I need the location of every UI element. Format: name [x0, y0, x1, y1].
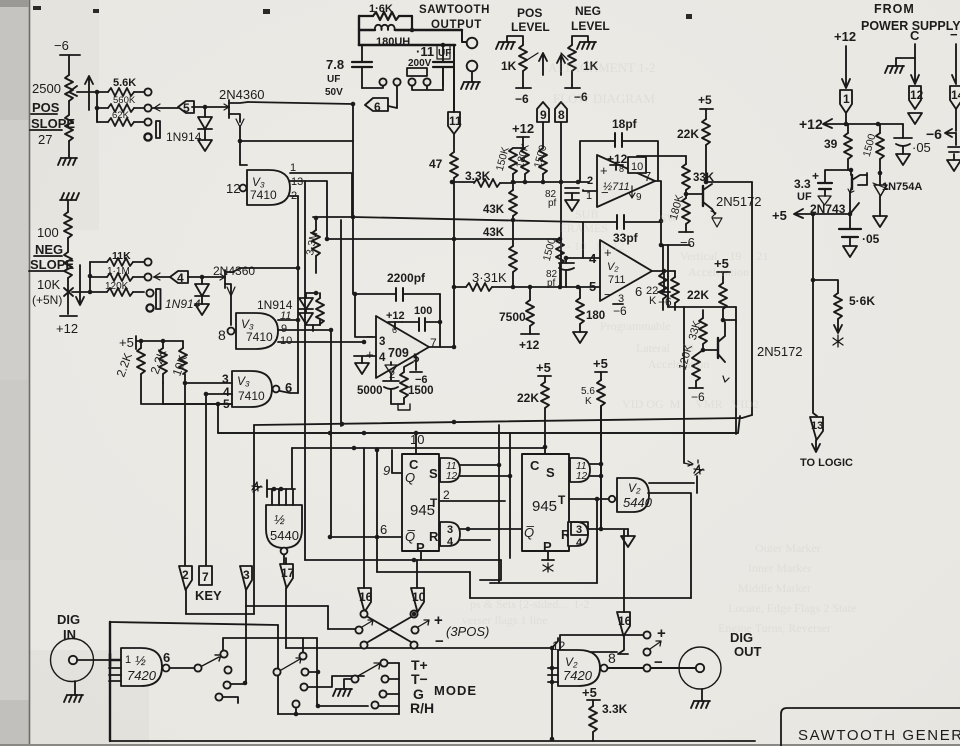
wire minus input: [355, 294, 376, 337]
ground arrow (right edge): [947, 160, 960, 171]
junction: [844, 122, 849, 127]
svg-text:+: +: [657, 625, 666, 642]
svg-text:2N5172: 2N5172: [716, 194, 762, 209]
wire box right edge: [751, 182, 753, 415]
terminal circle (5.6K): [144, 88, 151, 95]
wire contact1 riser: [223, 638, 317, 650]
svg-text:3: 3: [379, 336, 385, 348]
svg-text:Outer Marker: Outer Marker: [755, 541, 821, 555]
pin 4 wire: [566, 257, 600, 259]
label SLOPE: [29, 257, 74, 272]
arrow up (wiper sense): [85, 76, 93, 110]
7420#1 input stubs: [109, 668, 121, 681]
wire H1 corner down: [327, 606, 329, 629]
wire P1 down: [420, 551, 422, 560]
wire pin1 cap 82pf to ground: [545, 188, 597, 211]
junction: [811, 212, 816, 217]
capacitor .05 (rail): [894, 124, 931, 155]
junction: [329, 328, 334, 333]
wire output: [429, 322, 454, 347]
junction pin3: [183, 381, 188, 386]
pin 3: [185, 372, 232, 386]
wire + contact staircase: [560, 635, 643, 652]
wire long vertical from tag6 node: [352, 104, 354, 294]
label +12 (rail top): [512, 121, 534, 148]
svg-text:3: 3: [447, 524, 453, 536]
junction: [279, 487, 284, 492]
svg-text:39: 39: [824, 137, 838, 151]
wire output-chain lower vertical: [683, 307, 685, 463]
svg-text:(+5N): (+5N): [32, 293, 62, 307]
ground (POS pot): [496, 36, 523, 49]
svg-text:Lateral 38: Lateral 38: [636, 341, 694, 355]
resistor 3.3K: [589, 702, 628, 741]
wire Q1 out to 9: [383, 450, 402, 478]
svg-text:+: +: [366, 347, 374, 362]
wire +5 node down: [812, 214, 814, 280]
MODE contact T-: [381, 675, 399, 682]
X middle circles: [355, 626, 362, 633]
svg-text:−: −: [950, 27, 958, 42]
wire y560 bus: [305, 559, 501, 561]
svg-text:FRAMES: FRAMES: [560, 221, 608, 235]
pin 1: [290, 162, 352, 217]
svg-text:FROM: FROM: [874, 2, 915, 16]
svg-text:NEG: NEG: [35, 242, 63, 257]
svg-text:+: +: [434, 612, 443, 629]
edge specks: [0, 0, 692, 19]
svg-text:12: 12: [910, 88, 924, 102]
svg-text:T−: T−: [411, 671, 428, 687]
pin 12 bubble: [226, 181, 246, 196]
junction: [576, 285, 581, 290]
junction: [550, 737, 555, 742]
capacitor 7.8UF 50V: [325, 45, 372, 98]
junction pin4 cap: [564, 256, 569, 261]
svg-text:UF: UF: [797, 191, 812, 203]
label SLOPE: [30, 116, 75, 131]
diode 1N914 shaper: [299, 293, 313, 324]
pin 9 arrow inside: [629, 186, 642, 203]
svg-text:Engine Turns, Reverser: Engine Turns, Reverser: [718, 621, 831, 635]
wire U3 output up: [280, 391, 298, 393]
junction 1500 top: [558, 237, 563, 242]
resistor (output chain): [659, 245, 667, 310]
junction: [811, 278, 816, 283]
wire x377 drop: [376, 448, 378, 572]
+5 / 22K (middle right): [714, 256, 730, 283]
svg-text:MODE: MODE: [434, 683, 477, 698]
ground arrow (NEG clamp): [195, 304, 209, 315]
junction: [95, 106, 100, 111]
star terminal (5440#1): [252, 482, 262, 492]
gate U1 V3 7410: [247, 170, 290, 205]
svg-text:DIG: DIG: [57, 612, 80, 627]
wire S1 input a: [460, 464, 499, 466]
wire y598 bus: [470, 597, 691, 599]
tag 11: [448, 45, 462, 134]
wire line B: [218, 432, 738, 434]
junction: [314, 291, 319, 296]
ground arrow (.05): [896, 154, 910, 165]
svg-text:2: 2: [443, 488, 450, 502]
resistor 5.6K: [97, 77, 144, 96]
junction lineB x415: [414, 431, 419, 436]
svg-text:560K: 560K: [113, 95, 136, 106]
resistor 33K (lower): [687, 310, 707, 350]
svg-text:5440: 5440: [270, 528, 299, 543]
wire output2 drop: [690, 493, 692, 598]
transistor Q1 2N4360 JFET: [205, 100, 248, 127]
wire to output jack: [462, 30, 467, 42]
junction: [139, 339, 144, 344]
junction: [595, 497, 600, 502]
svg-text:1: 1: [125, 654, 131, 666]
svg-text:10: 10: [280, 335, 292, 347]
wire y560 right corner: [480, 560, 501, 580]
resistors +5 pullup cluster: [119, 335, 183, 350]
title box: [781, 708, 960, 746]
svg-text:T: T: [430, 496, 438, 510]
wire y572 corner down: [469, 572, 471, 598]
pin 11: [278, 310, 298, 322]
terminal circles (trim pads): [379, 78, 386, 85]
switch contact circles: [220, 650, 227, 657]
output bubble 5440#1: [281, 548, 288, 555]
junction: [599, 474, 604, 479]
svg-text:−: −: [604, 287, 612, 302]
flip-flop U7 945: [402, 454, 439, 555]
svg-text:945: 945: [532, 498, 557, 515]
ground (NEG pot top): [60, 193, 79, 212]
contact circles (mid switch): [301, 668, 308, 675]
wire S2 inputs: [590, 464, 601, 476]
wire x499 drop: [498, 425, 500, 583]
MODE contacts T+: [380, 659, 399, 666]
junction lineB x364: [362, 431, 367, 436]
capacitor 5000: [357, 374, 403, 404]
junction: [599, 527, 604, 532]
+12 supply (U4 pin 8): [607, 152, 628, 174]
tag 16a: [358, 448, 373, 612]
svg-text:−6: −6: [515, 92, 529, 106]
svg-text:47: 47: [429, 157, 443, 171]
junction: [511, 285, 516, 290]
svg-text:5.6K: 5.6K: [113, 77, 136, 89]
wire JFET2 source to gate pin 8: [230, 295, 232, 325]
svg-text:C: C: [530, 458, 540, 473]
+5 22K column (top right): [698, 93, 713, 119]
wire -6 to pot: [68, 55, 70, 75]
op-amp U4 1/2 711 (upper comparator): [597, 155, 655, 207]
MODE bus: [398, 663, 400, 714]
svg-text:5·6K: 5·6K: [849, 294, 875, 308]
wire loop right vertical: [411, 16, 413, 30]
wire y572 bus: [377, 571, 470, 573]
junction zener top: [878, 171, 883, 176]
svg-text:NEG: NEG: [575, 4, 601, 18]
svg-text:·11: ·11: [416, 44, 434, 59]
tag 7 KEY: [195, 566, 222, 603]
junction: [88, 274, 93, 279]
wire pad bus right: [412, 67, 443, 90]
wire +12 rail: [846, 123, 903, 125]
junction: [161, 339, 166, 344]
svg-text:½: ½: [135, 653, 146, 668]
junction: [375, 535, 380, 540]
enclosure right vertical: [735, 307, 737, 322]
wire to switch: [170, 667, 194, 669]
svg-text:7410: 7410: [250, 188, 277, 202]
svg-text:−6: −6: [54, 38, 69, 53]
junction: [238, 139, 243, 144]
wire R1 input b: [460, 539, 490, 541]
junction: [294, 712, 299, 717]
svg-text:2: 2: [389, 369, 395, 381]
node B junction: [200, 275, 205, 280]
svg-text:2N5172: 2N5172: [757, 344, 803, 359]
transistor Q3 2N5172: [686, 184, 762, 217]
junction 3.3K right: [450, 180, 455, 185]
arrow into star terminal: [684, 461, 693, 466]
label POS: [31, 100, 60, 115]
junction: [441, 43, 446, 48]
gate U3 V3 7410: [232, 371, 272, 407]
pin 13: [290, 176, 327, 239]
svg-text:·05: ·05: [912, 140, 931, 155]
resistor 10K: [170, 341, 190, 383]
junction collector node: [704, 180, 709, 185]
capacitor 3.3UF: [794, 169, 851, 205]
connector DIG OUT (BNC): [679, 647, 721, 689]
svg-text:12: 12: [446, 471, 458, 482]
input bubble 5440#2: [609, 496, 615, 502]
wire stub: [309, 671, 318, 673]
svg-text:14: 14: [951, 88, 960, 102]
MODE switch common: [351, 663, 380, 683]
wire tag17 row: [286, 647, 552, 649]
junction: [316, 670, 321, 675]
gate S2 (and): [570, 458, 590, 482]
diode 1N914 (slug NEG): [156, 289, 161, 309]
potentiometer 2500 POS SLOPE: [65, 75, 77, 157]
label 22K (stacked): [646, 285, 658, 307]
wire loop left vertical: [358, 16, 360, 45]
wire pad bus left: [362, 86, 383, 88]
tag 1: [840, 90, 852, 124]
wire y583 loop: [490, 582, 597, 584]
junction: [325, 237, 330, 242]
wire source node to long vertical: [240, 140, 353, 142]
junction: [452, 285, 457, 290]
svg-text:7.8: 7.8: [326, 57, 344, 72]
svg-text:7500: 7500: [499, 310, 526, 324]
junction: [550, 680, 555, 685]
junction: [412, 558, 417, 563]
svg-text:VID OG M VMR VID2: VID OG M VMR VID2: [622, 397, 759, 411]
big box left edge: [109, 622, 111, 741]
X bottom circles: [360, 641, 367, 648]
svg-text:SLOPE: SLOPE: [31, 116, 75, 131]
X cross wires: [368, 617, 411, 642]
capacitor .11UF 200V: [407, 44, 453, 90]
label POS LEVEL: [511, 6, 550, 34]
7420#2 input stubs: [548, 668, 558, 682]
connector DIG IN (BNC): [51, 639, 94, 682]
wire line A left drop: [253, 425, 255, 614]
wire 5440#2 outputs: [648, 483, 694, 493]
svg-text:5000: 5000: [357, 385, 383, 397]
svg-text:S: S: [546, 465, 555, 480]
big box top edge: [110, 622, 278, 625]
wire C-input branch 945#1: [410, 432, 424, 454]
capacitor 82pf (pin4): [546, 258, 574, 289]
resistor 120K (lower chain): [677, 343, 705, 404]
resistor 33K upper: [637, 156, 690, 194]
svg-text:LEVEL: LEVEL: [511, 20, 550, 34]
label DIG OUT: [730, 630, 762, 659]
terminal circle (62K): [144, 118, 151, 125]
svg-text:+5: +5: [593, 356, 608, 371]
tag 14 (right edge): [950, 86, 960, 131]
node C in: [910, 28, 920, 84]
gate U11 1/2 7420: [121, 648, 162, 686]
svg-text:½: ½: [274, 512, 285, 527]
svg-text:ps & Sets [2-sided... 1-2: ps & Sets [2-sided... 1-2: [470, 597, 589, 611]
gate U8 1/2 5440: [266, 505, 302, 548]
+12 arrow left: [799, 116, 846, 132]
X mid arrow right: [418, 620, 429, 627]
ground arrow (zener): [873, 216, 887, 227]
junction: [316, 704, 321, 709]
capacitor 33pf: [583, 215, 661, 258]
svg-text:8: 8: [619, 164, 624, 174]
svg-text:100: 100: [414, 305, 432, 317]
svg-text:2500: 2500: [32, 81, 61, 96]
node A junction: [203, 105, 208, 110]
svg-text:SW: SW: [660, 211, 679, 225]
svg-text:R: R: [429, 529, 439, 544]
svg-text:7410: 7410: [238, 389, 265, 403]
terminal pad 2: [393, 78, 400, 85]
junction tag6: [351, 102, 356, 107]
svg-text:16: 16: [618, 614, 632, 628]
wire R2 input to ground: [588, 529, 628, 536]
pin 2: [290, 190, 298, 202]
potentiometer 1K NEG: [561, 45, 580, 88]
label DIG IN: [57, 612, 80, 642]
wire tag9 down: [542, 122, 544, 148]
wire stub down: [295, 708, 297, 714]
tag 4: [154, 271, 202, 285]
contact low: [292, 700, 299, 707]
ground arrow (709 +): [355, 363, 369, 374]
wire pin2 vertical: [297, 196, 299, 393]
junction pin11: [296, 318, 301, 323]
DIG OUT switch + contact: [643, 625, 666, 642]
svg-text:POS: POS: [32, 100, 60, 115]
svg-text:verser flags 1 line: verser flags 1 line: [462, 613, 548, 627]
wire tag3 down: [245, 590, 247, 606]
-6 stub below output: [658, 271, 672, 309]
svg-text:4: 4: [447, 536, 454, 548]
svg-text:4: 4: [379, 352, 386, 364]
svg-text:V₂: V₂: [628, 481, 641, 495]
ground arrow (R2): [621, 536, 635, 547]
junction pin5: [216, 402, 221, 407]
junction pin4: [204, 392, 209, 397]
svg-text:V₂: V₂: [565, 655, 578, 669]
wire contact4 stub: [223, 697, 238, 703]
gate R2 (and): [568, 522, 588, 549]
svg-text:+5: +5: [582, 685, 597, 700]
diode 1N754A zener: [873, 173, 922, 216]
wire comparator feedback chain x663: [661, 244, 690, 246]
wire tag16b to switch: [618, 636, 628, 654]
wire y217 long: [313, 217, 583, 222]
junction: [95, 90, 100, 95]
svg-text:9: 9: [383, 463, 390, 478]
svg-text:8: 8: [558, 108, 565, 122]
junction base node: [684, 192, 689, 197]
wire collector2 riser: [723, 319, 736, 321]
wire collector to box edge: [706, 181, 752, 183]
diode to ground (POS input clamp): [198, 107, 212, 140]
svg-text:TO LOGIC: TO LOGIC: [800, 457, 853, 469]
junction: [599, 462, 604, 467]
wire mid vertical: [340, 220, 342, 426]
X mid arrow left: [362, 620, 373, 627]
5440#1 input stubs: [272, 489, 293, 505]
svg-text:2: 2: [182, 568, 189, 582]
junction: [528, 285, 533, 290]
terminal pad 4: [423, 78, 430, 85]
svg-text:10: 10: [631, 161, 643, 173]
wire 2.2Kb to pin5: [162, 383, 164, 404]
resistor 1M (parallel): [306, 293, 324, 331]
svg-text:SAWTOOTH: SAWTOOTH: [419, 4, 490, 16]
flip-flop U9 945: [522, 454, 571, 554]
wiper wire: [72, 291, 90, 293]
svg-text:V₂: V₂: [607, 261, 619, 273]
svg-text:5: 5: [183, 101, 190, 115]
wire line A right end rise: [742, 415, 752, 418]
ground arrow (clamp diode): [198, 140, 212, 151]
resistor 1500 (power): [861, 124, 884, 173]
svg-text:6: 6: [380, 522, 387, 537]
wire tag3 line lower: [245, 606, 247, 683]
star terminal: [833, 335, 843, 347]
pin 12 input: [552, 638, 566, 653]
wire BNC to gate: [77, 659, 110, 661]
svg-text:SAWTOOTH GENERATO: SAWTOOTH GENERATO: [798, 727, 960, 744]
svg-text:+: +: [812, 169, 819, 183]
junction output-cap: [438, 320, 443, 325]
svg-text:+12: +12: [519, 338, 540, 352]
gate U10 1/2 5440: [617, 478, 653, 512]
tag 12: [909, 86, 924, 109]
pin T1 / 2: [439, 488, 505, 502]
svg-text:+5: +5: [772, 208, 787, 223]
ground (NEG pot): [572, 36, 596, 49]
wire branch to 5.6K: [813, 280, 838, 293]
svg-text:pf: pf: [547, 278, 556, 289]
bar terminal (5440#1): [266, 480, 268, 497]
resistor 3.31K: [466, 270, 600, 291]
tag 13: [810, 417, 823, 452]
junction: [466, 527, 471, 532]
junction: [659, 243, 664, 248]
